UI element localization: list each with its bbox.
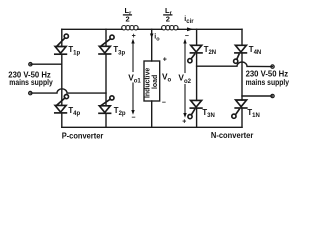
fraction bar Lr/2 left bbox=[124, 14, 132, 16]
svg-text:T1p: T1p bbox=[68, 45, 80, 56]
terminal left top bbox=[29, 62, 32, 65]
svg-text:2: 2 bbox=[166, 15, 170, 24]
wire load stem top with io arrow bbox=[151, 29, 153, 61]
wire P-converter right leg bbox=[105, 29, 107, 46]
inductive load box bbox=[144, 61, 160, 101]
svg-text:−: − bbox=[185, 33, 189, 40]
svg-text:Vo2: Vo2 bbox=[178, 73, 191, 85]
svg-text:T2N: T2N bbox=[204, 45, 216, 56]
svg-text:T4p: T4p bbox=[68, 106, 80, 117]
wire top bus right section to N-converter bbox=[178, 28, 242, 30]
svg-text:mains supply: mains supply bbox=[9, 77, 53, 87]
label Lr/2 right bbox=[165, 6, 173, 24]
svg-text:T2p: T2p bbox=[114, 106, 126, 117]
label Lr/2 left bbox=[125, 6, 133, 24]
io current arrow on load stem bbox=[150, 34, 154, 39]
terminal right top bbox=[271, 65, 274, 68]
wire AC left bottom with hop over left leg bbox=[30, 89, 106, 93]
svg-text:+: + bbox=[182, 119, 186, 126]
thyristor T1p bbox=[55, 34, 69, 54]
thyristor T2p bbox=[99, 96, 114, 114]
wire P-converter left leg bbox=[61, 29, 63, 46]
Vo1 measurement arrow bbox=[132, 41, 134, 113]
wire top bus left section (P-converter top) bbox=[62, 28, 122, 30]
thyristor T3p bbox=[99, 35, 114, 54]
svg-text:N-converter: N-converter bbox=[211, 130, 254, 140]
svg-text:+: + bbox=[163, 57, 167, 64]
svg-text:T3N: T3N bbox=[202, 108, 214, 119]
inductor Lr/2 left coil bbox=[122, 26, 138, 30]
svg-text:icir: icir bbox=[184, 16, 194, 25]
wire N-converter right leg bbox=[241, 29, 243, 45]
wire AC right top with hop over right leg bbox=[197, 62, 273, 67]
load text bbox=[145, 68, 160, 98]
svg-text:mains supply: mains supply bbox=[246, 77, 290, 87]
svg-text:Vo1: Vo1 bbox=[128, 72, 141, 84]
svg-text:Vo: Vo bbox=[162, 72, 172, 84]
wire load stem bottom bbox=[151, 101, 153, 127]
wire N-converter left leg bbox=[196, 29, 198, 45]
svg-text:−: − bbox=[162, 100, 166, 107]
thyristor T3N bbox=[188, 100, 202, 118]
svg-text:load: load bbox=[152, 75, 159, 89]
wire AC left top bbox=[30, 63, 61, 65]
svg-text:Inductive: Inductive bbox=[145, 68, 152, 98]
thyristor T2N bbox=[188, 45, 202, 63]
wire between coils bbox=[138, 28, 162, 30]
terminal right bottom bbox=[271, 94, 274, 97]
svg-text:−: − bbox=[131, 114, 135, 121]
svg-text:T1N: T1N bbox=[247, 108, 259, 119]
thyristor T1N bbox=[232, 100, 247, 118]
fraction bar Lr/2 right bbox=[164, 14, 172, 16]
svg-text:+: + bbox=[132, 33, 136, 40]
thyristor T4p bbox=[55, 95, 69, 113]
svg-text:T4N: T4N bbox=[249, 45, 261, 56]
svg-text:T3p: T3p bbox=[113, 45, 125, 56]
inductor Lr/2 right coil bbox=[162, 26, 178, 30]
svg-text:io: io bbox=[154, 34, 160, 43]
wire AC right bottom bbox=[242, 95, 273, 97]
icir current arrow on top bus bbox=[187, 27, 193, 31]
wire bottom bus bbox=[62, 126, 242, 128]
svg-text:P-converter: P-converter bbox=[62, 130, 104, 140]
label mains supply left bbox=[8, 70, 53, 88]
svg-text:2: 2 bbox=[126, 15, 130, 24]
label mains supply right bbox=[246, 69, 290, 88]
Vo2 measurement arrow bbox=[184, 41, 186, 116]
terminal left bottom bbox=[29, 91, 32, 94]
thyristor T4N bbox=[234, 45, 247, 63]
